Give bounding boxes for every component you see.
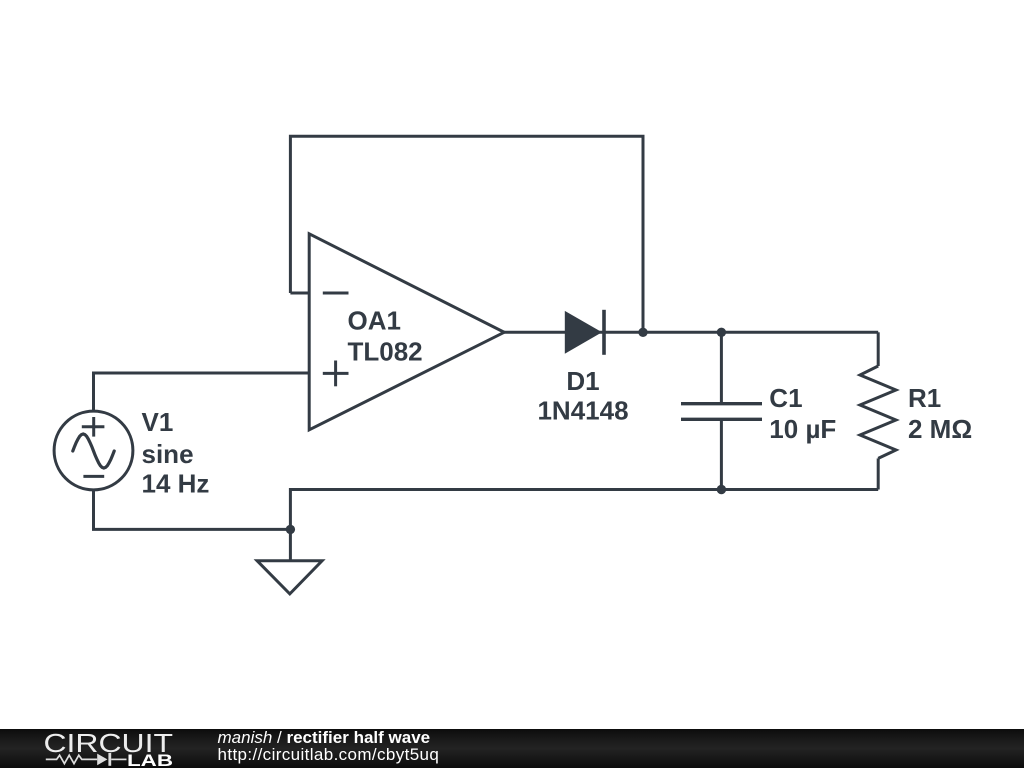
- label OA1 / TL082: [348, 306, 423, 367]
- svg-text:10 µF: 10 µF: [769, 414, 836, 444]
- wire non-inverting input (V1 to OA1 +): [94, 373, 310, 411]
- label D1 / 1N4148: [537, 366, 628, 425]
- svg-text:D1: D1: [566, 366, 599, 396]
- svg-text:OA1: OA1: [348, 306, 401, 336]
- wire inverting input stub: [290, 292, 309, 295]
- node junction at ground: [286, 525, 295, 534]
- wire V1 bottom to ground node: [94, 490, 291, 530]
- node junction at C1 bottom: [717, 485, 726, 494]
- label C1 / 10 uF: [769, 383, 836, 444]
- wire ground stub: [289, 529, 292, 560]
- wire R1 top lead: [877, 332, 880, 366]
- svg-text:C1: C1: [769, 383, 802, 413]
- label R1 / 2 Mohm: [908, 383, 972, 444]
- node junction at C1 top: [717, 328, 726, 337]
- wire C1 bottom lead: [720, 419, 723, 489]
- svg-text:14 Hz: 14 Hz: [142, 469, 210, 499]
- wire R1 bottom lead: [877, 458, 880, 489]
- svg-text:1N4148: 1N4148: [537, 396, 628, 426]
- svg-text:R1: R1: [908, 383, 941, 413]
- op-amp OA1: [309, 234, 504, 430]
- wire feedback loop (OA1 output to inverting input): [290, 136, 643, 332]
- voltage source V1: [54, 411, 133, 490]
- svg-text:LAB: LAB: [127, 752, 173, 768]
- label V1 / sine / 14 Hz: [142, 407, 210, 499]
- CircuitLab logo text CIRCUIT: [0, 729, 210, 768]
- footer url text: [218, 745, 440, 764]
- diode D1: [565, 310, 604, 355]
- logo resistor-diode symbol: [46, 753, 127, 766]
- svg-text:V1: V1: [142, 407, 174, 437]
- svg-text:sine: sine: [142, 439, 194, 469]
- resistor R1: [860, 366, 896, 458]
- node junction at D1 cathode / feedback: [638, 328, 647, 337]
- footer title text: [218, 728, 431, 747]
- wire bottom rail (R1/C1 bottom to V1 node): [290, 490, 878, 530]
- wire C1 top lead: [720, 332, 723, 403]
- svg-text:2 MΩ: 2 MΩ: [908, 414, 972, 444]
- wire OA1 output to R1 top: [504, 331, 878, 334]
- ground: [257, 561, 322, 594]
- svg-text:TL082: TL082: [348, 336, 423, 366]
- capacitor C1: [681, 404, 762, 420]
